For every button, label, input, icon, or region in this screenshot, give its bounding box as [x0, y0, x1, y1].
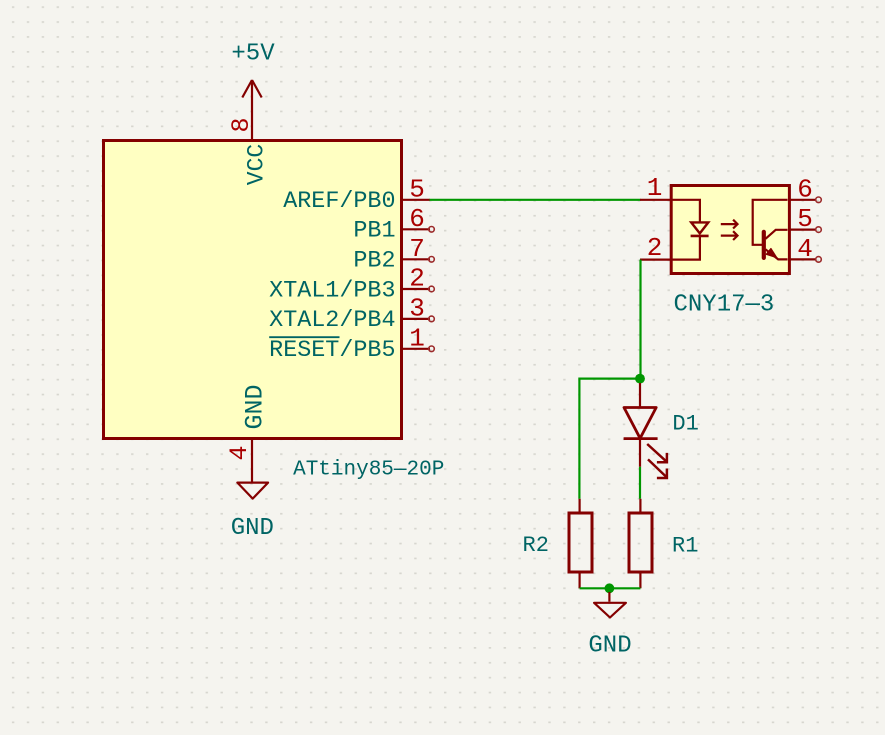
U2 light coupling arrows: [721, 220, 738, 240]
U2 phototransistor: [753, 200, 788, 260]
svg-text:R1: R1: [672, 533, 698, 558]
resistor R2: [569, 499, 592, 589]
wire U2 pin 2 down: [639, 260, 641, 379]
pin names U1 right: [269, 189, 395, 364]
resistor R1: [629, 499, 652, 589]
svg-text:PB2: PB2: [353, 249, 395, 275]
svg-text:4: 4: [225, 445, 254, 460]
pin 4 GND (U1 bottom): [251, 439, 253, 482]
wire junction A to R2: [579, 379, 640, 499]
svg-text:ATtiny85—20P: ATtiny85—20P: [293, 458, 444, 481]
RESET overline: [269, 336, 339, 338]
svg-text:GND: GND: [231, 515, 274, 542]
svg-text:2: 2: [409, 264, 425, 294]
U2 pin 1: [640, 199, 671, 201]
wire R2 bottom to R1 bottom: [580, 587, 641, 589]
svg-text:7: 7: [409, 234, 425, 264]
svg-text:D1: D1: [672, 411, 698, 436]
optocoupler U2 CNY17-3 body: [671, 186, 789, 274]
svg-text:4: 4: [797, 234, 813, 264]
pin numbers U1 right: [409, 174, 425, 353]
svg-text:VCC: VCC: [244, 144, 270, 185]
svg-text:XTAL1/PB3: XTAL1/PB3: [269, 278, 395, 304]
wire D1 to R1: [639, 467, 641, 499]
svg-text:1: 1: [647, 173, 663, 203]
svg-text:3: 3: [409, 293, 425, 323]
svg-text:5: 5: [797, 204, 813, 234]
ground symbol (U1): [237, 483, 268, 499]
svg-text:CNY17—3: CNY17—3: [674, 292, 775, 319]
svg-text:2: 2: [647, 233, 663, 263]
U2 pin 5: [790, 227, 822, 233]
svg-text:XTAL2/PB4: XTAL2/PB4: [269, 308, 395, 334]
svg-text:5: 5: [409, 174, 425, 204]
svg-text:GND: GND: [588, 633, 631, 660]
IC U1 ATtiny85-20P body: [104, 141, 402, 439]
U2 pin 4: [790, 257, 822, 263]
D1 emission arrows: [647, 444, 667, 478]
svg-text:GND: GND: [241, 384, 270, 429]
svg-text:RESET/PB5: RESET/PB5: [269, 338, 395, 364]
svg-text:6: 6: [797, 174, 813, 204]
LED D1: [624, 383, 658, 467]
pin 5 AREF/PB0: [402, 199, 430, 201]
svg-text:R2: R2: [523, 533, 549, 558]
svg-text:1: 1: [409, 323, 425, 353]
pin 6 PB1: [402, 227, 434, 233]
U2 pin 2: [640, 259, 671, 261]
svg-text:6: 6: [409, 204, 425, 234]
junction node B: [605, 583, 615, 593]
svg-text:AREF/PB0: AREF/PB0: [283, 189, 395, 215]
svg-text:PB1: PB1: [353, 219, 395, 245]
svg-text:+5V: +5V: [231, 41, 275, 68]
ground symbol (R net): [594, 592, 626, 618]
U2 internal LED: [673, 200, 709, 260]
pin 7 PB2: [402, 257, 434, 263]
junction node A: [635, 374, 645, 384]
power symbol +5V: [242, 80, 261, 140]
pin 1 RESET/PB5: [402, 346, 434, 352]
U2 pin numbers: [647, 173, 813, 264]
pin 2 XTAL1/PB3: [402, 286, 434, 292]
svg-text:8: 8: [227, 117, 256, 132]
U2 pin 6: [790, 197, 822, 203]
pin 3 XTAL2/PB4: [402, 316, 434, 322]
wire net U1 pin 5 to U2 pin 1: [430, 199, 641, 201]
